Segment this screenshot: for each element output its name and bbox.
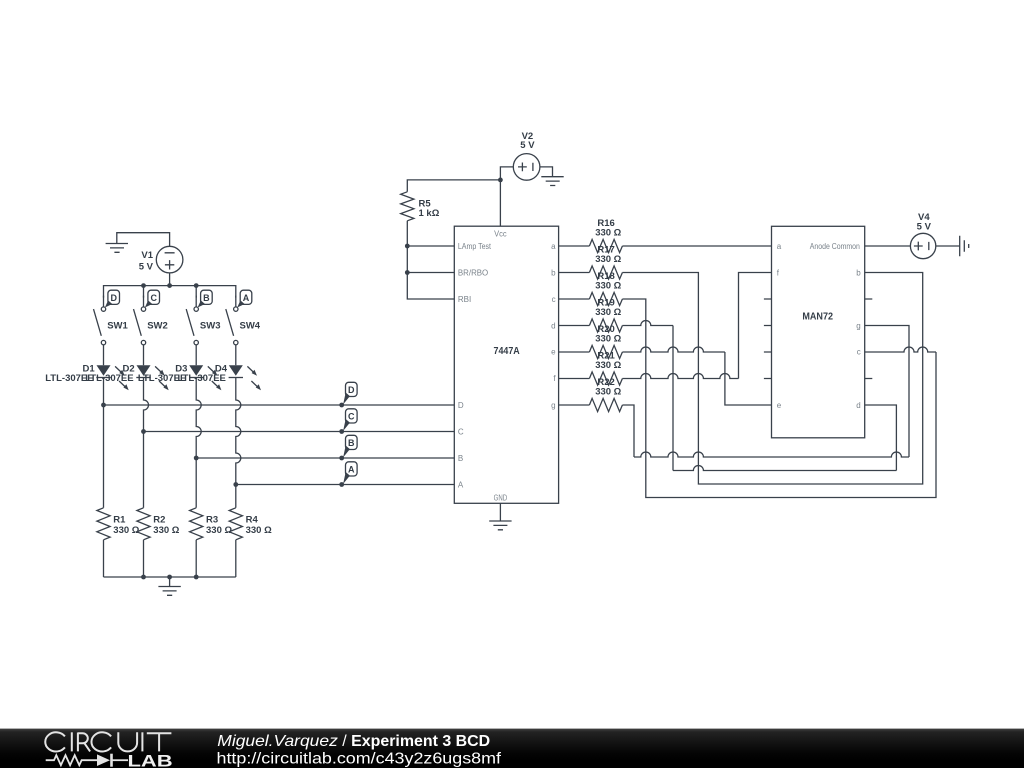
wire node A row bbox=[236, 484, 454, 486]
op-amp U1: IC 7447A BCD decoder bbox=[454, 226, 558, 503]
switch SW2 with node flag C bbox=[134, 290, 168, 365]
svg-text:c: c bbox=[857, 348, 861, 357]
IC U2: MAN72 7-segment display bbox=[772, 226, 865, 437]
wire branch 1 (LED D1 to R1) bbox=[101, 378, 106, 508]
wire V1 to switch bus bbox=[169, 273, 171, 286]
ground G1 (top left, V1 negative) bbox=[106, 233, 170, 253]
svg-text:http://circuitlab.com/c43y2z6u: http://circuitlab.com/c43y2z6ugs8mf bbox=[217, 751, 502, 768]
svg-text:R1: R1 bbox=[113, 515, 126, 526]
svg-text:330 Ω: 330 Ω bbox=[113, 525, 139, 536]
wire Anode Common to V4 bbox=[865, 245, 911, 247]
wire V4 to ground bbox=[936, 245, 960, 247]
wire R5 to LAmp Test / BR/RBO / RBI bbox=[405, 221, 454, 299]
svg-text:A: A bbox=[348, 464, 355, 474]
svg-text:A: A bbox=[458, 481, 464, 490]
svg-text:Vcc: Vcc bbox=[494, 230, 507, 239]
svg-text:g: g bbox=[856, 322, 860, 331]
svg-text:BR/RBO: BR/RBO bbox=[458, 269, 488, 278]
switch SW3 with node flag B bbox=[186, 290, 220, 365]
svg-text:LAmp Test: LAmp Test bbox=[458, 242, 492, 251]
resistor R19 330 ohm (segment d) bbox=[559, 298, 623, 333]
svg-text:GND: GND bbox=[494, 493, 508, 502]
CircuitLab logo bbox=[0, 728, 200, 769]
svg-text:330 Ω: 330 Ω bbox=[595, 307, 621, 318]
svg-text:d: d bbox=[551, 322, 555, 331]
svg-text:R2: R2 bbox=[153, 515, 165, 526]
svg-text:330 Ω: 330 Ω bbox=[206, 525, 232, 536]
wire R1 to ground bus bbox=[103, 540, 105, 577]
voltage source V2 5V bbox=[513, 131, 540, 180]
svg-text:SW1: SW1 bbox=[107, 321, 128, 332]
svg-text:D: D bbox=[348, 385, 355, 395]
wire segment f routing bbox=[622, 273, 771, 379]
resistor R22 330 ohm (segment g) bbox=[559, 377, 623, 412]
wire segment a to MAN72 bbox=[622, 245, 771, 247]
switch SW4 with node flag A bbox=[226, 290, 261, 365]
svg-text:B: B bbox=[203, 293, 210, 303]
svg-text:330 Ω: 330 Ω bbox=[595, 387, 621, 398]
resistor R2 330 ohm bbox=[137, 508, 180, 540]
LED D4 LTL-307EE bbox=[178, 364, 261, 391]
wire node D row bbox=[104, 404, 455, 406]
footer title text bbox=[200, 728, 760, 769]
wire V2 right to ground bbox=[540, 167, 553, 177]
svg-text:LAB: LAB bbox=[128, 753, 173, 769]
wire R4 to ground bus bbox=[235, 540, 237, 577]
svg-text:5 V: 5 V bbox=[139, 262, 154, 273]
LED D1 LTL-307EE bbox=[45, 364, 128, 391]
ground G5 (V4 negative, rotated) bbox=[960, 236, 969, 256]
svg-text:B: B bbox=[458, 454, 463, 463]
svg-text:330 Ω: 330 Ω bbox=[595, 281, 621, 292]
node flag D bbox=[339, 382, 357, 407]
wire R3 to ground bus bbox=[195, 540, 197, 577]
svg-text:e: e bbox=[551, 348, 556, 357]
LED D3 LTL-307EE bbox=[138, 364, 221, 391]
svg-text:SW2: SW2 bbox=[147, 321, 168, 332]
svg-text:7447A: 7447A bbox=[494, 346, 520, 357]
svg-text:330 Ω: 330 Ω bbox=[246, 525, 272, 536]
wire segment g routing bbox=[622, 326, 909, 458]
footer bar bbox=[0, 728, 1024, 768]
LED D2 LTL-307EE bbox=[85, 364, 168, 391]
resistor R16 330 ohm (segment a) bbox=[559, 218, 623, 253]
svg-text:a: a bbox=[777, 242, 782, 251]
svg-text:e: e bbox=[777, 401, 782, 410]
svg-text:RBI: RBI bbox=[458, 295, 471, 304]
svg-text:SW3: SW3 bbox=[200, 321, 221, 332]
svg-text:d: d bbox=[856, 401, 860, 410]
wire node C row bbox=[144, 431, 455, 433]
svg-text:1 kΩ: 1 kΩ bbox=[419, 208, 440, 219]
svg-text:LTL-307EE: LTL-307EE bbox=[178, 373, 226, 384]
svg-text:B: B bbox=[348, 438, 355, 448]
svg-text:C: C bbox=[150, 293, 157, 303]
wire branch 4 (LED D4 to R4) bbox=[233, 378, 240, 508]
wire bottom ground bus bbox=[104, 575, 236, 580]
wire top bus bbox=[104, 283, 236, 297]
wire node B row bbox=[196, 457, 454, 459]
svg-text:f: f bbox=[777, 269, 780, 278]
svg-text:D: D bbox=[458, 401, 464, 410]
wire R2 to ground bus bbox=[143, 540, 145, 577]
node flag A bbox=[339, 462, 357, 487]
svg-text:330 Ω: 330 Ω bbox=[595, 360, 621, 371]
wire branch 3 (LED D3 to R3) bbox=[194, 378, 201, 508]
svg-text:330 Ω: 330 Ω bbox=[153, 525, 179, 536]
ground G2 (bottom of R1-R4) bbox=[158, 577, 180, 595]
wire segment c routing bbox=[622, 299, 936, 498]
svg-text:A: A bbox=[243, 293, 250, 303]
resistor R18 330 ohm (segment c) bbox=[559, 271, 623, 306]
svg-text:Miguel.Varquez / Experiment 3: Miguel.Varquez / Experiment 3 BCD bbox=[217, 733, 490, 750]
resistor R17 330 ohm (segment b) bbox=[559, 245, 623, 280]
svg-text:b: b bbox=[551, 269, 556, 278]
svg-text:R3: R3 bbox=[206, 515, 218, 526]
svg-text:SW4: SW4 bbox=[240, 321, 261, 332]
svg-text:c: c bbox=[552, 295, 556, 304]
svg-text:330 Ω: 330 Ω bbox=[595, 228, 621, 239]
node flag C bbox=[339, 409, 357, 434]
resistor R4 330 ohm bbox=[229, 508, 272, 540]
svg-text:Anode Common: Anode Common bbox=[810, 242, 860, 251]
wire Vcc tee to R5 bbox=[407, 180, 500, 192]
ground G3 (V2 negative) bbox=[541, 177, 563, 186]
svg-text:5 V: 5 V bbox=[917, 221, 932, 232]
svg-text:C: C bbox=[348, 411, 355, 421]
ground G4 (7447A GND pin) bbox=[489, 503, 511, 530]
resistor R21 330 ohm (segment f) bbox=[559, 351, 623, 386]
wire branch 2 (LED D2 to R2) bbox=[141, 378, 148, 508]
MAN72 unconnected stubs bbox=[764, 299, 872, 379]
node flag B bbox=[339, 435, 357, 460]
voltage source V4 5V bbox=[910, 212, 935, 259]
wire segment d routing bbox=[622, 321, 896, 471]
resistor R1 330 ohm bbox=[97, 508, 140, 540]
wire segment e routing bbox=[622, 347, 771, 405]
resistor R3 330 ohm bbox=[190, 508, 233, 540]
svg-text:330 Ω: 330 Ω bbox=[595, 254, 621, 265]
svg-text:5 V: 5 V bbox=[520, 140, 535, 151]
svg-text:MAN72: MAN72 bbox=[802, 312, 833, 323]
resistor R5 1 kohm bbox=[401, 192, 440, 221]
svg-text:V1: V1 bbox=[141, 250, 153, 261]
voltage source V1 5V bbox=[139, 246, 183, 273]
svg-text:b: b bbox=[856, 269, 861, 278]
svg-text:g: g bbox=[551, 401, 555, 410]
wire segment b routing bbox=[622, 273, 922, 485]
svg-text:330 Ω: 330 Ω bbox=[595, 334, 621, 345]
svg-text:a: a bbox=[551, 242, 556, 251]
switch SW1 with node flag D bbox=[94, 290, 129, 365]
wire V2 to Vcc bbox=[498, 167, 513, 226]
svg-text:f: f bbox=[553, 374, 556, 383]
resistor R20 330 ohm (segment e) bbox=[559, 324, 623, 359]
svg-text:D: D bbox=[110, 293, 117, 303]
svg-text:R4: R4 bbox=[246, 515, 259, 526]
svg-text:C: C bbox=[458, 428, 464, 437]
svg-text:LTL-307EE: LTL-307EE bbox=[85, 373, 133, 384]
